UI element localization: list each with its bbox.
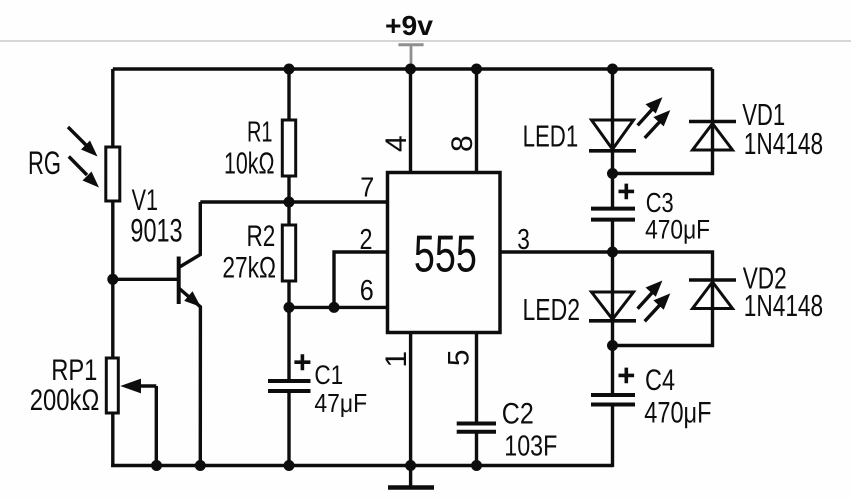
wire bottom rail xyxy=(111,464,612,467)
svg-text:4: 4 xyxy=(380,135,413,152)
wire left rail upper xyxy=(111,69,114,147)
node R1/R2 pin7 xyxy=(284,197,295,208)
svg-text:RP1: RP1 xyxy=(51,354,97,387)
wire pin3 output xyxy=(500,252,713,309)
capacitor C3 plus sign xyxy=(619,184,635,200)
node R2/C1 pin6 xyxy=(284,302,295,313)
svg-text:200kΩ: 200kΩ xyxy=(30,384,100,417)
svg-text:27kΩ: 27kΩ xyxy=(222,252,276,285)
transistor V1 base bar xyxy=(177,257,181,305)
svg-text:LED1: LED1 xyxy=(523,119,579,154)
power lead (gray) xyxy=(410,45,413,68)
wire pin2 bend xyxy=(334,252,388,307)
LED2 emission arrow 2 xyxy=(645,293,671,321)
node pin3 xyxy=(607,247,618,258)
wire left rail lower xyxy=(111,413,114,467)
potentiometer RP1 wiper arrow xyxy=(120,379,156,394)
capacitor C4 plates xyxy=(591,393,635,397)
wire C2 bottom lead xyxy=(475,433,478,466)
svg-text:R2: R2 xyxy=(247,220,276,253)
svg-text:RG: RG xyxy=(28,145,61,181)
LED1 emission arrow 2 xyxy=(645,110,671,138)
capacitor C3 plates xyxy=(591,207,635,211)
wire top rail xyxy=(113,67,713,70)
wire pin6 xyxy=(289,306,388,309)
svg-text:470μF: 470μF xyxy=(645,215,710,245)
pin 5 lead xyxy=(475,333,478,422)
node LED1 top xyxy=(607,64,618,75)
resistor R2 body xyxy=(282,225,295,281)
ground bar xyxy=(388,485,434,490)
node LED1 bottom xyxy=(607,168,618,179)
LED1 cathode bar xyxy=(589,149,636,153)
capacitor C3 bottom lead xyxy=(611,221,614,252)
diode VD1 cathode bar xyxy=(689,120,736,124)
node emitter bottom xyxy=(195,460,206,471)
svg-text:C3: C3 xyxy=(646,187,674,218)
svg-text:LED2: LED2 xyxy=(523,292,581,327)
node pin2/pin6 xyxy=(329,302,340,313)
node wiper bottom xyxy=(151,460,162,471)
capacitor C1 plus sign xyxy=(294,354,310,370)
pin 1 lead xyxy=(409,333,412,466)
LED2 triangle xyxy=(592,292,634,319)
node pin1 bottom xyxy=(405,460,416,471)
LED2 emission arrow 1 xyxy=(638,281,663,309)
capacitor C4 bottom lead xyxy=(611,406,614,467)
wire R2 bottom lead xyxy=(287,281,290,307)
node C2 bottom xyxy=(471,460,482,471)
transistor V1 base wire xyxy=(113,278,177,281)
svg-text:1: 1 xyxy=(380,351,413,368)
IC U1 555 box xyxy=(388,173,501,333)
RG light arrow 1 xyxy=(68,127,98,157)
svg-text:103F: 103F xyxy=(504,430,557,462)
LED2 cathode bar xyxy=(589,319,636,323)
svg-text:9013: 9013 xyxy=(130,212,182,248)
pin 4 lead xyxy=(409,69,412,173)
capacitor C4 plus sign xyxy=(619,368,635,384)
photoresistor RG body xyxy=(106,147,120,201)
svg-text:C2: C2 xyxy=(502,398,534,431)
capacitor C3 top lead xyxy=(611,174,614,208)
node base xyxy=(107,274,118,285)
svg-text:2: 2 xyxy=(360,224,373,256)
transistor V1 collector xyxy=(179,202,201,268)
wire R1 bottom lead xyxy=(287,176,290,202)
pin 8 lead xyxy=(475,69,478,173)
diode VD1 bottom lead xyxy=(613,150,713,174)
wire C1 top lead xyxy=(287,307,290,379)
node LED2 bottom xyxy=(607,340,618,351)
svg-text:5: 5 xyxy=(443,349,476,366)
svg-text:47μF: 47μF xyxy=(314,388,367,418)
svg-text:470μF: 470μF xyxy=(644,396,711,429)
svg-text:C4: C4 xyxy=(645,364,675,397)
node +9v xyxy=(405,64,416,75)
LED1 top lead xyxy=(611,69,614,150)
wire pin7 to collector xyxy=(200,200,387,203)
svg-text:10kΩ: 10kΩ xyxy=(224,146,275,181)
svg-text:1N4148: 1N4148 xyxy=(744,288,823,323)
power terminal bar (gray) xyxy=(398,43,423,46)
transistor V1 emitter xyxy=(179,288,201,466)
wire C1 bottom lead xyxy=(287,393,290,466)
diode VD2 bottom lead xyxy=(613,309,713,346)
LED1 triangle xyxy=(592,120,634,149)
RG light arrow 2 xyxy=(69,157,99,188)
resistor R1 body xyxy=(282,120,295,176)
diode VD2 cathode bar xyxy=(689,278,736,282)
svg-text:R1: R1 xyxy=(247,117,273,149)
node C1 bottom xyxy=(284,460,295,471)
LED1 emission arrow 1 xyxy=(638,97,663,125)
transistor V1 emitter arrowhead xyxy=(184,291,201,307)
LED1 bottom lead xyxy=(611,151,614,174)
capacitor C1 plates xyxy=(268,379,311,383)
LED2 bottom lead xyxy=(611,321,614,346)
capacitor C2 plates xyxy=(457,422,496,426)
svg-text:+9v: +9v xyxy=(385,10,433,41)
LED2 top lead xyxy=(611,252,614,320)
ground stub xyxy=(409,466,412,486)
wire RP1 wiper to bottom rail xyxy=(155,386,158,466)
potentiometer RP1 body xyxy=(106,358,118,413)
svg-text:555: 555 xyxy=(414,226,477,284)
diode VD1 triangle xyxy=(693,124,733,151)
wire R1 top lead xyxy=(287,69,290,120)
svg-text:7: 7 xyxy=(360,172,374,203)
faint horizontal rule xyxy=(0,40,851,42)
svg-text:6: 6 xyxy=(360,275,374,307)
svg-text:1N4148: 1N4148 xyxy=(744,126,823,161)
capacitor C4 top lead xyxy=(611,346,614,394)
svg-text:8: 8 xyxy=(446,135,479,152)
svg-text:C1: C1 xyxy=(314,360,343,390)
node R1 top xyxy=(284,64,295,75)
wire R2 top lead xyxy=(287,202,290,225)
node pin8 top xyxy=(471,64,482,75)
wire left rail middle xyxy=(111,201,114,358)
diode VD2 triangle xyxy=(693,282,733,309)
diode VD1 top lead xyxy=(711,69,714,150)
